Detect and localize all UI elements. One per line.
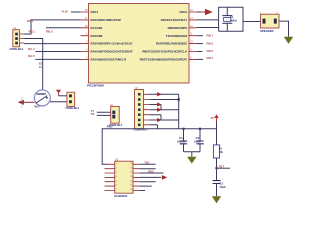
wire VCC to R1 <box>216 122 218 145</box>
off-page arrow left <box>18 97 35 108</box>
caps join wire to ground <box>184 152 201 157</box>
microcontroller U1 body <box>89 4 190 84</box>
wire U1 row3 <box>46 27 81 29</box>
wire buzzer right to J4 <box>50 101 67 103</box>
IC U2 body <box>115 161 133 193</box>
J2 pads <box>138 93 141 126</box>
ground bottom right <box>212 196 221 203</box>
svg-text:CONN-SIL3: CONN-SIL3 <box>10 48 24 51</box>
wire R1 to junction <box>216 158 218 180</box>
svg-text:RA.5: RA.5 <box>28 54 35 58</box>
J1 pads <box>15 33 18 36</box>
U1 right row4 wire <box>197 35 203 37</box>
svg-text:100nF: 100nF <box>177 140 186 144</box>
svg-text:10k: 10k <box>219 151 224 154</box>
svg-text:RXD: RXD <box>148 170 154 174</box>
resistor R1 <box>213 145 219 158</box>
svg-text:RB.1: RB.1 <box>29 30 36 34</box>
J3 wires <box>97 112 111 115</box>
svg-text:RX/DT/RB1/AN5/SDI/SS: RX/DT/RB1/AN5/SDI/SS <box>156 42 187 46</box>
VCC power symbol <box>211 114 219 121</box>
svg-text:RA3/AN3/VREF+/C1IN+/ICDCLK: RA3/AN3/VREF+/C1IN+/ICDCLK <box>91 42 133 46</box>
U1 left pin numbers <box>85 9 88 59</box>
J1 pin stubs <box>20 34 24 43</box>
svg-text:U2: U2 <box>115 157 119 161</box>
svg-text:SPEAKER: SPEAKER <box>260 29 274 33</box>
svg-text:4MHz: 4MHz <box>230 19 237 23</box>
svg-text:RB6/T1OSO/T1CKI/PGC/ICSPCLK: RB6/T1OSO/T1CKI/PGC/ICSPCLK <box>142 50 187 54</box>
svg-text:RB.2: RB.2 <box>46 30 53 34</box>
svg-text:TX/CK/RB2/AN3: TX/CK/RB2/AN3 <box>166 34 188 38</box>
svg-text:RA5/AN5/SS/C2OUT/MCLR: RA5/AN5/SS/C2OUT/MCLR <box>91 58 127 62</box>
svg-text:BUZ: BUZ <box>35 106 41 109</box>
J4 pads <box>69 94 72 97</box>
wire U1 row2 to J1 pin1 <box>24 20 81 34</box>
svg-text:OSC1: OSC1 <box>91 10 99 14</box>
svg-text:RB.5: RB.5 <box>207 49 214 53</box>
J2 pin stubs <box>144 94 151 125</box>
junction dots <box>182 128 184 130</box>
off-page arrow bottom <box>162 175 167 180</box>
ground top right <box>284 37 293 44</box>
svg-text:RXD: RXD <box>107 124 113 128</box>
mini arrow row1 <box>156 93 161 96</box>
svg-text:RA.4: RA.4 <box>28 47 35 51</box>
buzzer top bar <box>37 93 46 95</box>
U1 right row1 wire <box>197 11 205 13</box>
U1 right row6 wire <box>197 51 203 53</box>
J2 row wires <box>150 94 179 125</box>
crystal X1 <box>222 16 232 24</box>
U2 right pin numbers <box>130 163 133 191</box>
svg-text:J1: J1 <box>13 26 16 30</box>
U1 right pin numbers <box>190 9 193 59</box>
svg-text:RX: RX <box>91 112 95 116</box>
bus verticals <box>158 94 179 129</box>
capacitor C1 <box>180 129 187 152</box>
svg-text:RA1/AN1: RA1/AN1 <box>91 26 103 30</box>
off-page arrow right row1 <box>201 9 212 14</box>
svg-text:VL05: VL05 <box>62 9 69 13</box>
svg-text:CONN-SIL2: CONN-SIL2 <box>66 107 80 110</box>
svg-text:CONN-SIL7: CONN-SIL7 <box>134 128 149 132</box>
crystal loop wires <box>219 7 243 31</box>
svg-text:RST: RST <box>219 165 225 169</box>
U1 right row2 wire to crystal loop <box>197 19 219 21</box>
U2 right wires <box>140 164 163 190</box>
wire U1 left row1 <box>71 11 81 13</box>
svg-text:RB0/INT/CMP1: RB0/INT/CMP1 <box>168 26 188 30</box>
wire power symbol to J4 pin1 <box>59 95 67 97</box>
svg-text:OSC2/CLKOUT/RA7: OSC2/CLKOUT/RA7 <box>161 18 188 22</box>
U1 right row7 wire <box>197 58 203 60</box>
junction dot row2 <box>178 98 180 100</box>
svg-text:X1: X1 <box>230 15 234 19</box>
mini arrow row3 <box>156 103 161 106</box>
U1 left pin stubs <box>81 12 89 59</box>
U1 right row3 wire to crystal loop <box>197 27 219 29</box>
wire U1 row7 <box>35 58 80 60</box>
mini arrow row6 <box>156 119 161 122</box>
svg-text:TX: TX <box>91 109 95 113</box>
svg-text:VC: VC <box>211 117 215 120</box>
U1 right pin names <box>140 10 188 61</box>
main node wire <box>102 129 216 165</box>
svg-text:10uF: 10uF <box>219 185 226 189</box>
svg-text:10uF: 10uF <box>194 140 201 144</box>
capacitor C3 <box>213 181 221 184</box>
svg-text:OSC2: OSC2 <box>179 10 187 14</box>
connector J4 <box>67 92 75 106</box>
wire U1 row5 to J1 pin3 <box>24 43 81 45</box>
ground middle <box>187 157 196 164</box>
buzzer dot <box>46 97 48 99</box>
U2 left stubs <box>105 164 115 190</box>
svg-text:ULN2003A: ULN2003A <box>114 194 128 198</box>
wire U1 row6 <box>35 51 80 53</box>
wire J1 pin2 to buzzer <box>24 39 43 90</box>
wire crystal loop to SP1 <box>243 21 261 23</box>
svg-text:RA0/AN0/C12IN0-/ICSP: RA0/AN0/C12IN0-/ICSP <box>91 18 122 22</box>
buzzer LS1 circle <box>34 90 50 106</box>
mini arrow row4 <box>156 108 161 111</box>
junction stub right <box>217 167 231 169</box>
U1 right row5 wire <box>197 43 203 45</box>
U1 left pin names <box>91 10 134 61</box>
connector J3 <box>111 106 120 123</box>
svg-text:PIC16F628A: PIC16F628A <box>87 84 105 88</box>
svg-text:RA.1: RA.1 <box>27 19 34 23</box>
capacitor C2 <box>196 129 203 152</box>
U2 right stubs <box>133 164 140 190</box>
svg-text:RB.7: RB.7 <box>207 33 214 37</box>
power-down symbol near J4 <box>56 90 61 96</box>
buzzer diagonal <box>36 96 48 104</box>
svg-text:TXD: TXD <box>144 160 149 164</box>
U1 right pin stubs <box>189 12 197 59</box>
svg-text:RA2/AN2: RA2/AN2 <box>91 34 103 38</box>
svg-text:RB.4: RB.4 <box>207 56 214 60</box>
svg-text:RB7/T1OSI/AN6/SDO/PGD/ICSPDAT: RB7/T1OSI/AN6/SDO/PGD/ICSPDAT <box>140 58 188 62</box>
svg-text:RA4/AN4/T0CKI/C2OUT/ICDDAT: RA4/AN4/T0CKI/C2OUT/ICDDAT <box>91 50 134 54</box>
connector J1 <box>13 30 20 47</box>
wire SP1 to ground <box>279 21 289 37</box>
svg-text:RB.6: RB.6 <box>207 41 214 45</box>
wire C3 to ground <box>216 184 218 197</box>
header J2 <box>135 90 144 129</box>
speaker SP1 body <box>261 14 280 28</box>
U2 left pin numbers <box>116 163 118 191</box>
